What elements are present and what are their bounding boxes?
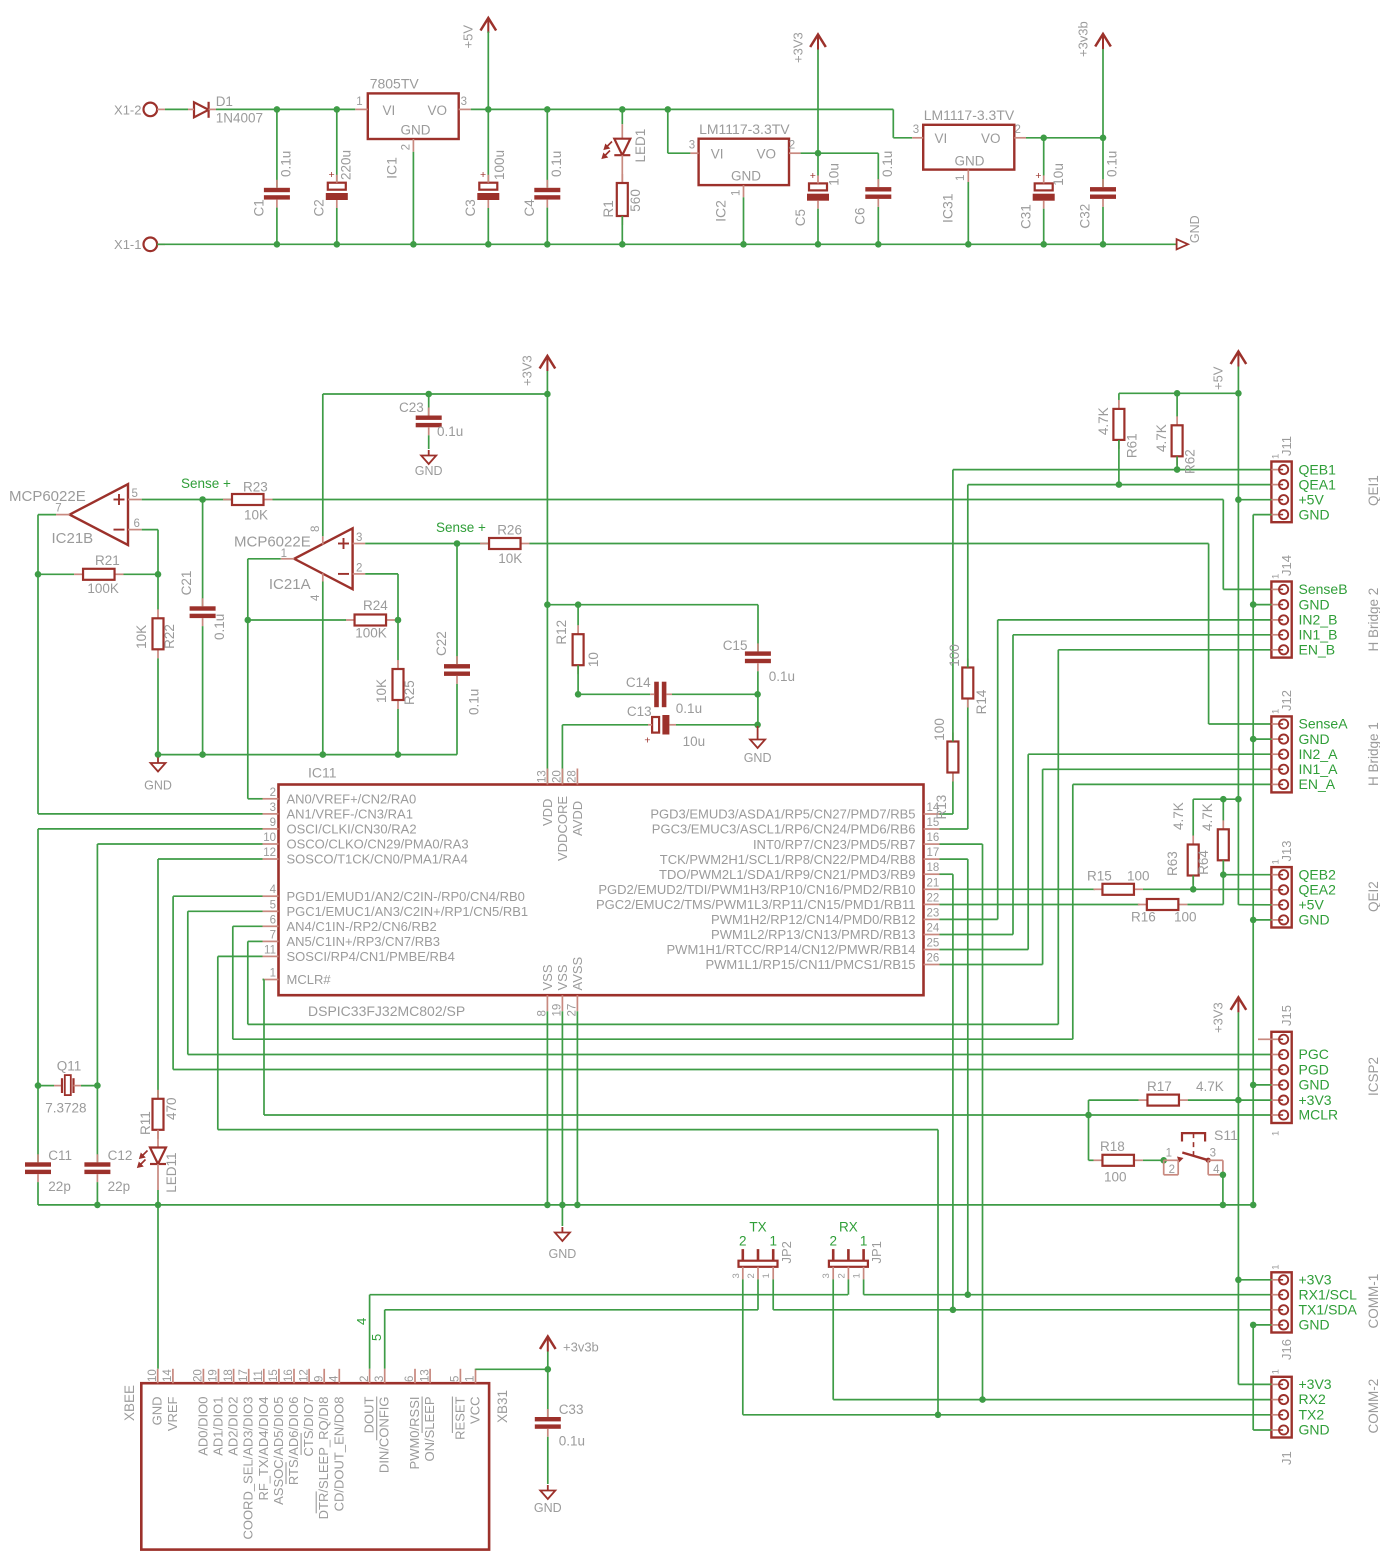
svg-text:1: 1 xyxy=(731,190,743,196)
junction IC2 GND/rail xyxy=(740,241,747,248)
GND net arrow (right end of power rail) xyxy=(1177,215,1202,249)
svg-text:IN2_A: IN2_A xyxy=(1299,746,1339,762)
wire pin16 down to RX2 xyxy=(940,844,983,1400)
svg-text:4.7K: 4.7K xyxy=(1196,1079,1224,1094)
junction R12/C14 row xyxy=(575,691,582,698)
wire J14 GND pin xyxy=(1253,604,1271,606)
wire EN_A row to J12 xyxy=(1073,783,1272,785)
svg-text:INT0/RP7/CN23/PMD5/RB7: INT0/RP7/CN23/PMD5/RB7 xyxy=(753,837,916,852)
svg-text:+: + xyxy=(1035,170,1041,182)
svg-text:1: 1 xyxy=(465,1376,477,1382)
svg-text:S11: S11 xyxy=(1214,1127,1238,1143)
junction C1/top rail xyxy=(274,106,281,113)
resistor R15 100 xyxy=(1087,868,1150,895)
svg-text:R21: R21 xyxy=(95,553,120,568)
wire QEB2 row to J13 xyxy=(1223,874,1271,876)
svg-text:GND: GND xyxy=(1299,731,1330,747)
wire pin18 down to TX1/SDA xyxy=(940,874,953,1310)
wire D1 to 7805 VI rail xyxy=(216,108,355,110)
svg-text:RX1/SCL: RX1/SCL xyxy=(1299,1287,1358,1303)
wire +3V3 row to C15 xyxy=(547,604,758,606)
svg-text:100: 100 xyxy=(1104,1170,1127,1185)
connector J13 QEI2 xyxy=(1271,841,1380,928)
svg-text:8: 8 xyxy=(310,526,322,532)
XBEE pins with numbers and names xyxy=(147,1369,483,1540)
svg-text:OSCI/CLKI/CN30/RA2: OSCI/CLKI/CN30/RA2 xyxy=(287,822,417,837)
svg-text:GND: GND xyxy=(1299,1422,1330,1438)
svg-text:PGC1/EMUC1/AN3/C2IN+/RP1/CN5/R: PGC1/EMUC1/AN3/C2IN+/RP1/CN5/RB1 xyxy=(287,904,529,919)
wire J13 +5V pin xyxy=(1238,904,1271,906)
svg-text:Q11: Q11 xyxy=(57,1059,82,1074)
svg-text:0.1u: 0.1u xyxy=(279,151,294,177)
wire JP1 pin2 down xyxy=(847,1279,849,1294)
resistor R25 10K xyxy=(374,620,417,709)
svg-text:MCP6022E: MCP6022E xyxy=(234,534,311,551)
svg-text:2: 2 xyxy=(829,1234,837,1249)
junction crystal left/C11 xyxy=(35,1082,42,1089)
wire IC2 VO to +3V3 net xyxy=(801,152,879,154)
svg-text:1: 1 xyxy=(1271,1131,1282,1136)
wire R22 to GND rail xyxy=(157,658,159,754)
LED LED1 xyxy=(603,109,649,162)
svg-text:QEA2: QEA2 xyxy=(1299,881,1337,897)
junction R61/QEA1 xyxy=(1116,481,1123,488)
svg-text:25: 25 xyxy=(927,938,940,950)
svg-text:0.1u: 0.1u xyxy=(467,689,482,715)
op-amp IC21A MCP6022E xyxy=(234,526,365,601)
junction GND col/rail xyxy=(1250,1202,1257,1209)
resistor R21 100K xyxy=(74,553,124,596)
wire IC31 VO to +3v3b net xyxy=(1026,137,1103,139)
wire R63 to QEA2 row xyxy=(1192,876,1194,890)
capacitor C6 0.1u xyxy=(853,151,896,245)
svg-text:3: 3 xyxy=(913,124,919,136)
wire IC2 GND pin1 to bottom rail xyxy=(743,197,745,244)
svg-text:+3V3: +3V3 xyxy=(1299,1376,1332,1392)
net label Sense + (2) xyxy=(436,520,486,535)
bottom GND rail of power section xyxy=(157,243,1177,245)
wire top rail corner down to IC31 VI xyxy=(893,109,912,137)
svg-text:J14: J14 xyxy=(1279,555,1294,576)
svg-text:QEA1: QEA1 xyxy=(1299,476,1337,492)
GND rail of op-amp section xyxy=(158,754,457,756)
svg-text:IN1_A: IN1_A xyxy=(1299,761,1339,777)
capacitor C2 220u (polarized) xyxy=(312,109,354,244)
svg-text:H Bridge 1: H Bridge 1 xyxy=(1366,722,1380,786)
connector pad X1-2 xyxy=(114,102,165,117)
junction C32/bottom rail xyxy=(1100,241,1107,248)
wire pin21 to R15 (QEA2) xyxy=(940,888,1096,890)
svg-text:VI: VI xyxy=(935,131,948,146)
svg-text:1: 1 xyxy=(1166,1148,1172,1160)
wire JP1 pin3 down to RX2 row xyxy=(833,1279,1271,1399)
svg-text:1: 1 xyxy=(761,1273,772,1278)
svg-text:10u: 10u xyxy=(1051,163,1066,186)
wire SenseA column down to J12 xyxy=(1209,544,1272,725)
svg-text:+: + xyxy=(810,170,816,182)
junction pin11 col/TX2 row xyxy=(935,1412,942,1419)
svg-text:TDO/PWM2L1/SDA1/RP9/CN21/PMD3/: TDO/PWM2L1/SDA1/RP9/CN21/PMD3/RB9 xyxy=(659,867,915,882)
capacitor C14 0.1u (horizontal) xyxy=(626,675,702,716)
svg-text:21: 21 xyxy=(927,877,940,889)
junction LED1/top rail xyxy=(619,106,626,113)
svg-text:GND: GND xyxy=(401,123,431,138)
svg-text:0.1u: 0.1u xyxy=(212,614,227,640)
voltage regulator IC31 LM1117-3.3TV xyxy=(912,107,1026,223)
junction R64 top xyxy=(1220,796,1227,803)
svg-text:R13: R13 xyxy=(934,795,949,820)
wire IC21A out to column xyxy=(248,559,281,620)
svg-text:LM1117-3.3TV: LM1117-3.3TV xyxy=(924,107,1015,123)
wire J16 +3V3 pin xyxy=(1238,1279,1271,1281)
junction +3V3 col/J16 xyxy=(1235,1277,1242,1284)
svg-text:PWM1H1/RTCC/RP14/CN12/PMWR/RB1: PWM1H1/RTCC/RP14/CN12/PMWR/RB14 xyxy=(667,942,916,957)
RF module XB31 XBEE xyxy=(122,1383,510,1549)
svg-text:20: 20 xyxy=(552,770,564,783)
svg-text:GND: GND xyxy=(731,169,761,184)
wire JP1 pin1 down + RX1 row right xyxy=(864,1279,1272,1294)
svg-text:10u: 10u xyxy=(683,734,706,749)
svg-text:9: 9 xyxy=(313,1376,325,1382)
junction VCC/+3v3b col xyxy=(545,1366,552,1373)
junction C23 top xyxy=(425,391,432,398)
svg-text:C12: C12 xyxy=(108,1148,133,1163)
svg-text:9: 9 xyxy=(270,817,276,829)
svg-text:VSS: VSS xyxy=(540,964,555,990)
+3V3 supply symbol (regulator output) xyxy=(791,32,826,153)
junction GND col/J14 xyxy=(1250,601,1257,608)
svg-text:22: 22 xyxy=(927,892,940,904)
wire JP2 pin2 down xyxy=(757,1279,759,1309)
+5V vertical rail (right) xyxy=(1237,393,1239,904)
wire pin22 to R16 xyxy=(940,904,1140,906)
junction C13/GND col xyxy=(754,722,761,729)
svg-text:3: 3 xyxy=(270,802,276,814)
junction SCL col/RX1 row xyxy=(965,1291,972,1298)
svg-text:1: 1 xyxy=(356,96,362,108)
svg-text:J12: J12 xyxy=(1279,690,1294,711)
svg-text:ON/SLEEP: ON/SLEEP xyxy=(422,1397,437,1462)
svg-text:12: 12 xyxy=(298,1369,310,1382)
svg-text:3: 3 xyxy=(356,532,362,544)
svg-text:MCLR: MCLR xyxy=(1299,1107,1339,1123)
wire R17 left to MCLR column xyxy=(1089,1100,1139,1115)
svg-text:13: 13 xyxy=(537,770,549,783)
svg-text:VSS: VSS xyxy=(555,964,570,990)
svg-text:R64: R64 xyxy=(1196,850,1211,875)
wire S11 pin4 to GND rail xyxy=(1222,1175,1224,1205)
capacitor C5 10u (polarized) xyxy=(793,153,842,244)
switch S11 xyxy=(1164,1127,1238,1176)
wire R21 right to junction xyxy=(124,573,159,575)
junction +5V col/J11 xyxy=(1235,496,1242,503)
svg-text:1: 1 xyxy=(1271,859,1282,864)
svg-text:11: 11 xyxy=(264,944,276,956)
svg-text:4: 4 xyxy=(310,594,322,601)
wire IC11 pin9 OSCI to crystal xyxy=(38,829,263,1086)
svg-text:GND: GND xyxy=(1299,596,1330,612)
capacitor C31 10u (polarized) xyxy=(1019,138,1067,245)
svg-text:22p: 22p xyxy=(48,1179,71,1194)
svg-text:5: 5 xyxy=(369,1334,384,1341)
svg-text:D1: D1 xyxy=(216,94,233,109)
svg-text:R23: R23 xyxy=(243,480,268,495)
wire IC21A pin3 to Sense+ node 2 xyxy=(365,543,489,545)
svg-text:VO: VO xyxy=(757,147,777,162)
wire J15 GND pin xyxy=(1253,1084,1271,1086)
junction C1/bottom rail xyxy=(274,241,281,248)
svg-text:H Bridge 2: H Bridge 2 xyxy=(1366,588,1380,652)
wire J15 pin1 stub (nc) xyxy=(1258,1038,1271,1040)
svg-text:C11: C11 xyxy=(48,1148,72,1163)
svg-text:1: 1 xyxy=(852,1273,863,1278)
wire JP2 pin1 down + TX1 row right xyxy=(773,1279,1271,1309)
ground symbol (main rail) xyxy=(549,1205,577,1261)
resistor R24 100K xyxy=(346,598,396,641)
svg-text:0.1u: 0.1u xyxy=(769,669,795,684)
resistor R64 4.7K xyxy=(1196,799,1229,875)
capacitor C13 10u (horizontal polarized) xyxy=(627,704,705,749)
svg-text:3: 3 xyxy=(461,96,467,108)
svg-text:LED11: LED11 xyxy=(164,1153,179,1193)
svg-text:R61: R61 xyxy=(1125,433,1140,458)
svg-text:10K: 10K xyxy=(134,625,149,649)
wire IC11 pin7 to EN_B xyxy=(248,650,1059,1025)
wire top rail to IC2 branch xyxy=(622,108,893,110)
svg-text:GND: GND xyxy=(1188,215,1202,243)
svg-text:VO: VO xyxy=(428,103,448,118)
connector J1 COMM-2 xyxy=(1271,1369,1380,1465)
svg-text:C2: C2 xyxy=(312,199,327,216)
svg-text:AD2/DIO2: AD2/DIO2 xyxy=(226,1397,241,1456)
junction R25/GND rail xyxy=(395,751,402,758)
svg-text:QEB2: QEB2 xyxy=(1299,866,1337,882)
wire R25 to GND rail xyxy=(397,709,399,755)
svg-text:CTS/DIO7: CTS/DIO7 xyxy=(301,1397,316,1457)
junction R62 top xyxy=(1174,390,1181,397)
svg-text:10K: 10K xyxy=(498,551,522,566)
wire R18 to S11 xyxy=(1143,1159,1164,1161)
svg-text:16: 16 xyxy=(927,832,940,844)
resistor R14 100 xyxy=(947,644,989,714)
svg-text:12: 12 xyxy=(263,847,276,859)
svg-text:4: 4 xyxy=(1213,1164,1220,1176)
junction GND col/J16 xyxy=(1250,1322,1257,1329)
wire R23 to SenseB (long) xyxy=(273,499,1224,501)
junction SDA col/TX1 row xyxy=(950,1307,957,1314)
+3V3 column down to VDD xyxy=(546,394,548,785)
svg-text:R24: R24 xyxy=(363,598,388,613)
ground symbol (op-amp section) xyxy=(144,758,172,793)
svg-text:JP1: JP1 xyxy=(869,1241,884,1263)
svg-text:0.1u: 0.1u xyxy=(676,701,702,716)
svg-text:20: 20 xyxy=(193,1369,205,1382)
svg-text:VDDCORE: VDDCORE xyxy=(555,796,570,861)
svg-text:XB31: XB31 xyxy=(495,1390,510,1423)
junction +5V col/R63 row xyxy=(1235,796,1242,803)
wire IC21A pin2 xyxy=(365,574,398,620)
wire IC11 pin12 SOSCO to R11 column xyxy=(158,859,263,1099)
wire J12 GND pin xyxy=(1253,738,1271,740)
junction IC2 branch xyxy=(665,106,672,113)
wire IC21B pin5 to Sense+ node xyxy=(142,499,232,501)
junction R21/R22/pin6 xyxy=(155,571,162,578)
svg-text:VCC: VCC xyxy=(468,1397,483,1424)
svg-text:TX2: TX2 xyxy=(1299,1406,1325,1422)
resistor R17 4.7K xyxy=(1138,1079,1223,1106)
junction MCLR/R17-R18 col xyxy=(1085,1112,1092,1119)
svg-text:R11: R11 xyxy=(138,1111,153,1135)
junction GND col/J15 xyxy=(1250,1082,1257,1089)
junction C5/bottom rail xyxy=(815,241,822,248)
wire R26 to SenseA (long) xyxy=(530,543,1209,545)
svg-text:10: 10 xyxy=(586,652,601,667)
junction IC31 GND/rail xyxy=(965,241,972,248)
wire IC11 pin6 to EN_A xyxy=(233,784,1073,1039)
svg-text:AN1/VREF-/CN3/RA1: AN1/VREF-/CN3/RA1 xyxy=(287,807,413,822)
svg-text:5: 5 xyxy=(270,899,276,911)
svg-text:SenseA: SenseA xyxy=(1299,716,1349,732)
wire IC11 pin2 AN0 from op-amp column xyxy=(248,798,263,800)
+5V supply symbol xyxy=(461,18,497,109)
junction C4/top rail xyxy=(544,106,551,113)
resistor R16 100 xyxy=(1131,899,1197,925)
svg-text:X1-2: X1-2 xyxy=(114,102,141,117)
svg-text:C33: C33 xyxy=(559,1402,584,1417)
svg-text:2: 2 xyxy=(356,563,362,575)
svg-text:+3V3: +3V3 xyxy=(520,355,535,386)
resistor R18 100 xyxy=(1093,1139,1143,1185)
svg-text:J13: J13 xyxy=(1279,841,1294,862)
capacitor C11 22p xyxy=(25,1086,72,1205)
wire R61 to QEA1 row xyxy=(1118,440,1120,485)
diode D1 1N4007 xyxy=(188,94,263,125)
resistor R22 10K xyxy=(134,574,177,658)
svg-text:22p: 22p xyxy=(108,1179,131,1194)
svg-text:PGC3/EMUC3/ASCL1/RP6/CN24/PMD6: PGC3/EMUC3/ASCL1/RP6/CN24/PMD6/RB6 xyxy=(652,822,916,837)
wire XBEE DOUT to RX1 row (net 4) xyxy=(370,1295,848,1369)
junction C31/bottom rail xyxy=(1040,241,1047,248)
svg-text:GND: GND xyxy=(144,779,172,793)
wire feedback column down to IC11 AN1 xyxy=(37,574,39,814)
wire R14 up to QEA1 row xyxy=(968,485,1272,668)
wire R15 to J13 QEA2 xyxy=(1143,888,1271,890)
svg-text:RX: RX xyxy=(839,1220,858,1235)
svg-text:IN2_B: IN2_B xyxy=(1299,612,1338,628)
junction R1/bottom rail xyxy=(619,241,626,248)
svg-text:10: 10 xyxy=(147,1369,159,1382)
LED LED11 xyxy=(138,1130,179,1205)
wire IC21A pin8 to +3V3 (C23 row) xyxy=(322,394,324,536)
svg-text:5: 5 xyxy=(450,1376,462,1382)
+3V3 supply symbol (right) xyxy=(1210,997,1246,1384)
wire C13 to GND node xyxy=(676,724,758,726)
svg-text:MCP6022E: MCP6022E xyxy=(9,488,86,505)
svg-text:10K: 10K xyxy=(244,508,268,523)
wire pin23 to IN2_B xyxy=(940,620,1272,920)
junction pin4/GND rail xyxy=(320,751,327,758)
wire IC11 pin10 OSCO to crystal xyxy=(97,844,262,1086)
svg-text:100: 100 xyxy=(932,718,947,741)
svg-text:IC11: IC11 xyxy=(308,765,337,781)
svg-text:IC2: IC2 xyxy=(713,200,729,222)
wire out column down to IC11 AN0 xyxy=(247,620,249,799)
svg-text:10: 10 xyxy=(263,832,276,844)
svg-text:1: 1 xyxy=(1271,574,1282,579)
resistor R61 4.7K xyxy=(1096,393,1140,458)
junction R63/QEA2 xyxy=(1190,886,1197,893)
jumper JP1 (RX) xyxy=(821,1220,884,1280)
svg-text:1: 1 xyxy=(860,1234,868,1249)
svg-text:18: 18 xyxy=(223,1369,235,1382)
ground symbol below C33 xyxy=(534,1437,562,1515)
svg-text:PGC2/EMUC2/TMS/PWM1L3/RP11/CN1: PGC2/EMUC2/TMS/PWM1L3/RP11/CN15/PMD1/RB1… xyxy=(596,897,916,912)
svg-text:10u: 10u xyxy=(827,163,842,186)
svg-text:Sense +: Sense + xyxy=(181,476,231,491)
svg-text:PGD3/EMUD3/ASDA1/RP5/CN27/PMD7: PGD3/EMUD3/ASDA1/RP5/CN27/PMD7/RB5 xyxy=(650,807,915,822)
svg-text:C31: C31 xyxy=(1019,204,1034,229)
svg-text:R16: R16 xyxy=(1131,910,1156,925)
svg-text:R63: R63 xyxy=(1165,851,1180,876)
svg-text:C22: C22 xyxy=(434,631,449,656)
wire R16 up to QEB2 row xyxy=(1187,875,1223,905)
wire pin15 up to R14/QEA1 xyxy=(940,698,968,829)
junction R24/R25/pin2 xyxy=(395,617,402,624)
wire IC11 pin11 SOSCI to TX2 column xyxy=(218,956,938,1414)
svg-text:C5: C5 xyxy=(793,209,808,226)
svg-text:GND: GND xyxy=(1299,911,1330,927)
wire R62 to QEB1 row xyxy=(1176,456,1178,469)
capacitor C3 100u (polarized) xyxy=(463,109,507,244)
microcontroller IC11 DSPIC33FJ32MC802/SP xyxy=(279,765,924,1020)
+5V supply symbol (right) xyxy=(1210,352,1246,394)
wire VDDCORE column to C13 row xyxy=(562,725,648,785)
junction C3/bottom rail xyxy=(485,241,492,248)
svg-text:+: + xyxy=(480,169,486,181)
svg-text:EN_A: EN_A xyxy=(1299,776,1336,792)
svg-text:2: 2 xyxy=(836,1273,847,1278)
svg-text:1: 1 xyxy=(955,175,967,181)
+3v3b supply symbol xyxy=(1075,21,1110,138)
svg-text:1N4007: 1N4007 xyxy=(216,111,263,126)
junction R22/GND rail xyxy=(155,751,162,758)
svg-text:6: 6 xyxy=(134,518,140,530)
+3V3 supply symbol (mid section) xyxy=(520,355,556,394)
svg-text:+3V3: +3V3 xyxy=(1299,1092,1332,1108)
junction C6/bottom rail xyxy=(875,241,882,248)
op-amp IC21B MCP6022E xyxy=(9,484,142,547)
svg-text:GND: GND xyxy=(150,1397,165,1426)
svg-text:AN0/VREF+/CN2/RA0: AN0/VREF+/CN2/RA0 xyxy=(287,792,417,807)
svg-text:10K: 10K xyxy=(374,679,389,703)
junction INT0 col/RX2 row xyxy=(979,1396,986,1403)
svg-text:100K: 100K xyxy=(355,626,387,641)
svg-text:7.3728: 7.3728 xyxy=(45,1101,86,1116)
wire R17 right to +3V3 xyxy=(1188,1099,1239,1101)
svg-text:R1: R1 xyxy=(601,200,616,217)
wire 7805 VO to +5V rail xyxy=(471,108,623,110)
svg-text:ICSP2: ICSP2 xyxy=(1366,1057,1380,1096)
svg-text:C23: C23 xyxy=(399,400,424,415)
resistor R23 10K xyxy=(223,480,273,523)
svg-text:24: 24 xyxy=(927,923,940,935)
svg-text:LM1117-3.3TV: LM1117-3.3TV xyxy=(699,121,790,137)
jumper JP2 (TX) xyxy=(731,1220,794,1280)
svg-text:J11: J11 xyxy=(1279,436,1294,456)
junction LED11/GND rail xyxy=(155,1202,162,1209)
crystal Q11 7.3728 xyxy=(38,1059,97,1116)
junction VSS8/GND rail xyxy=(544,1202,551,1209)
